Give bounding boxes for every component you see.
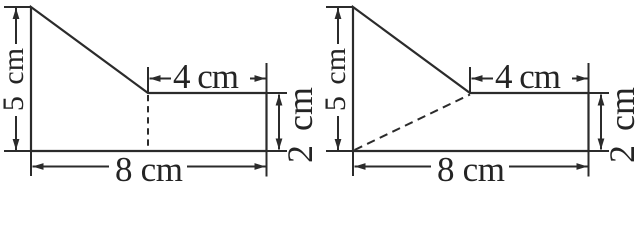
right figure outline (pentagon) bbox=[353, 7, 589, 151]
right 8 cm dimension: left extension tick below shape bbox=[352, 151, 354, 176]
right label "8 cm" bbox=[437, 150, 505, 189]
svg-text:8 cm: 8 cm bbox=[437, 150, 505, 187]
left 2 cm dimension: top extension tick bbox=[267, 92, 288, 94]
right 5 cm dimension: top extension tick bbox=[326, 6, 353, 8]
svg-text:5 cm: 5 cm bbox=[0, 48, 30, 111]
left dashed vertical construction line bbox=[147, 95, 149, 151]
left 8 cm dimension line with arrows bbox=[33, 163, 266, 170]
left 2 cm dimension line with arrows bbox=[276, 95, 283, 150]
right 4 cm dimension: left extension tick above interior corner bbox=[469, 67, 471, 93]
svg-text:4 cm: 4 cm bbox=[173, 57, 239, 96]
right 4 cm dimension line with arrows bbox=[472, 75, 588, 82]
svg-text:8 cm: 8 cm bbox=[115, 150, 183, 187]
right 2 cm dimension: top extension tick bbox=[589, 92, 610, 94]
left 5 cm dimension: bottom extension tick bbox=[4, 150, 31, 152]
left 2 cm dimension: bottom extension tick bbox=[267, 150, 288, 152]
left label "5 cm" (rotated) bbox=[0, 48, 30, 111]
right 5 cm dimension: bottom extension tick bbox=[326, 150, 353, 152]
svg-text:4 cm: 4 cm bbox=[495, 57, 561, 96]
left 8 cm dimension: left extension tick below shape bbox=[30, 151, 32, 176]
svg-text:2 cm: 2 cm bbox=[280, 87, 320, 163]
left 4 cm dimension: right extension tick above right edge bbox=[266, 63, 268, 93]
right dashed diagonal construction line bbox=[355, 95, 471, 151]
right 2 cm dimension line with arrows bbox=[598, 95, 605, 150]
svg-text:2 cm: 2 cm bbox=[602, 87, 642, 163]
right label "4 cm" bbox=[495, 57, 561, 96]
left figure outline (pentagon) bbox=[31, 7, 267, 151]
right 8 cm dimension line with arrows bbox=[355, 163, 588, 170]
left label "2 cm" (rotated) bbox=[280, 87, 320, 163]
right 5 cm dimension line with arrows bbox=[335, 8, 342, 150]
left 8 cm dimension: right extension tick below shape bbox=[266, 151, 268, 177]
svg-text:5 cm: 5 cm bbox=[319, 48, 352, 111]
left 4 cm dimension line with arrows bbox=[150, 75, 266, 82]
right label "5 cm" (rotated) bbox=[319, 48, 352, 111]
left 4 cm dimension: left extension tick above interior corner bbox=[147, 67, 149, 93]
left label "4 cm" bbox=[173, 57, 239, 96]
right 2 cm dimension: bottom extension tick bbox=[589, 150, 610, 152]
right 4 cm dimension: right extension tick above right edge bbox=[588, 63, 590, 93]
right 8 cm dimension: right extension tick below shape bbox=[588, 151, 590, 177]
left 5 cm dimension line with arrows bbox=[13, 8, 20, 150]
left label "8 cm" bbox=[115, 150, 183, 189]
right label "2 cm" (rotated) bbox=[602, 87, 642, 163]
left 5 cm dimension: top extension tick bbox=[4, 6, 31, 8]
